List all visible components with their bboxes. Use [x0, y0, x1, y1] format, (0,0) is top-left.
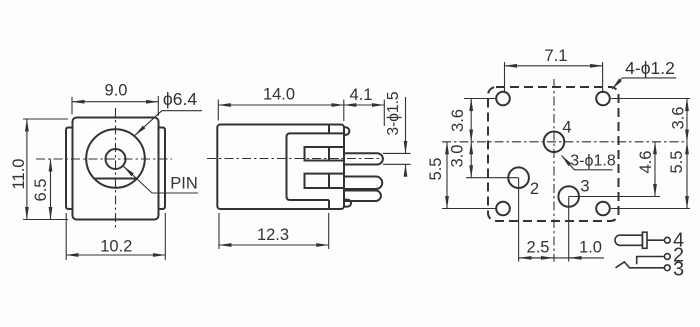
pin 2 contact arm	[637, 257, 665, 265]
dim 7.1 extension lines	[504, 62, 506, 93]
svg-text:5.5: 5.5	[668, 151, 686, 174]
dim 4.1 line	[344, 104, 385, 106]
dim 11.0 line	[26, 119, 28, 220]
svg-text:3: 3	[673, 259, 684, 281]
svg-text:3.0: 3.0	[449, 145, 467, 168]
svg-text:14.0: 14.0	[263, 86, 295, 104]
dim 4.1 extension line right	[383, 100, 385, 127]
svg-text:4.6: 4.6	[637, 151, 655, 174]
dashed footprint square	[488, 87, 619, 221]
dim 7.1 line	[505, 65, 603, 67]
dim 3-phi1.5 arrows	[405, 97, 407, 153]
leader phi6.4	[135, 111, 202, 136]
left side extension lines	[464, 98, 497, 100]
footprint vertical centerline through hole 4	[553, 79, 555, 262]
svg-text:2.5: 2.5	[527, 239, 550, 257]
leader PIN	[124, 166, 199, 193]
bottom nub	[344, 200, 351, 207]
svg-text:3-ϕ1.8: 3-ϕ1.8	[570, 153, 616, 170]
dim 3.0 left line	[470, 142, 472, 178]
window 2	[305, 174, 345, 188]
dim 14.0 extension lines	[217, 100, 219, 121]
hole 3	[558, 186, 579, 207]
hole 4	[544, 132, 565, 153]
svg-text:ϕ6.4: ϕ6.4	[163, 89, 197, 109]
svg-text:3: 3	[580, 178, 589, 196]
left mounting tab	[66, 128, 73, 210]
svg-text:4: 4	[562, 119, 571, 137]
pin 2 (side view)	[344, 177, 382, 190]
dim 5.5 left line	[446, 142, 448, 209]
svg-text:4.1: 4.1	[350, 86, 373, 104]
corner hole bottom-right	[596, 202, 610, 216]
svg-text:3-ϕ1.5: 3-ϕ1.5	[385, 91, 402, 135]
arrow at hole3 line (outside)	[569, 257, 582, 259]
pin 4 lead	[647, 239, 664, 241]
footprint horizontal centerline	[442, 141, 684, 143]
hole 3 extension line to dim	[568, 197, 570, 262]
flange line top segment	[328, 125, 330, 134]
svg-text:5.5: 5.5	[427, 158, 445, 181]
dim 9.0 line	[72, 101, 158, 103]
arrow at hole2 line	[519, 257, 535, 259]
footprint dashed outline	[488, 87, 619, 221]
plug barrel symbol	[615, 235, 642, 245]
dim 3.6 left line	[470, 99, 472, 142]
svg-text:1.0: 1.0	[579, 239, 602, 257]
corner hole top-left	[496, 92, 510, 106]
dim 10.2 line	[66, 254, 165, 256]
dim 10.2 extension lines	[65, 213, 67, 260]
corner hole top-right	[596, 92, 610, 106]
window 1 divider	[328, 147, 330, 161]
hole 2 horizontal centerline	[466, 177, 519, 179]
dim 12.3 extension lines	[218, 213, 220, 249]
center pin circle	[106, 149, 126, 169]
svg-text:6.5: 6.5	[32, 179, 50, 202]
right mounting tab	[159, 128, 166, 210]
dim 5.5 right line	[686, 142, 688, 209]
hole 2	[508, 167, 529, 188]
pin 3 spring contact	[616, 262, 665, 268]
arrow at hole4 line	[537, 257, 554, 259]
leader 3-phi1.8	[562, 156, 613, 170]
hole 2 extension line to dim	[518, 178, 520, 262]
pin 1 (center pin, side view)	[344, 153, 383, 164]
dim 3.6 right line	[686, 99, 688, 142]
pin 2 terminal circle	[664, 254, 670, 260]
pin 4 terminal circle	[664, 237, 670, 243]
window 2 divider	[328, 174, 330, 188]
svg-text:3.6: 3.6	[670, 107, 688, 130]
plug tip bar	[642, 232, 647, 248]
svg-text:4-ϕ1.2: 4-ϕ1.2	[625, 58, 675, 78]
svg-text:12.3: 12.3	[257, 226, 289, 244]
right side extension lines	[611, 98, 690, 100]
left view horizontal centerline	[36, 158, 172, 160]
svg-text:7.1: 7.1	[545, 47, 568, 65]
dim 2.5 / 1.0 baseline	[519, 257, 604, 259]
leader 4-phi1.2	[612, 78, 676, 89]
jack body front face	[73, 118, 159, 220]
svg-text:11.0: 11.0	[10, 159, 28, 190]
dim 14.0 line	[218, 104, 343, 106]
dim 11.0 extension lines	[23, 118, 68, 120]
chord line inside barrel	[94, 178, 137, 180]
left view vertical centerline	[115, 108, 117, 229]
inner step outline	[287, 133, 345, 200]
corner hole bottom-left	[496, 202, 510, 216]
dim 12.3 line	[219, 244, 329, 246]
barrel circle phi6.4	[86, 129, 145, 188]
top nub	[344, 127, 349, 135]
middle view centerline	[207, 158, 384, 160]
window 1	[305, 147, 345, 161]
pin 3 terminal circle	[664, 265, 670, 271]
svg-text:PIN: PIN	[170, 175, 198, 193]
svg-text:3.6: 3.6	[449, 109, 467, 132]
thin construction / dimension linework	[23, 62, 690, 262]
dim 3-phi1.5 extension lines	[383, 152, 411, 154]
flange line bottom segment	[328, 200, 330, 209]
svg-text:10.2: 10.2	[100, 238, 132, 256]
dim 9.0 extension lines	[71, 97, 73, 115]
pin 3 (side view)	[344, 191, 381, 202]
dim 4.6 line	[654, 142, 656, 197]
dim 6.5 line	[50, 159, 52, 220]
side body outline	[217, 125, 344, 210]
svg-text:2: 2	[530, 180, 539, 198]
svg-text:9.0: 9.0	[105, 82, 128, 100]
